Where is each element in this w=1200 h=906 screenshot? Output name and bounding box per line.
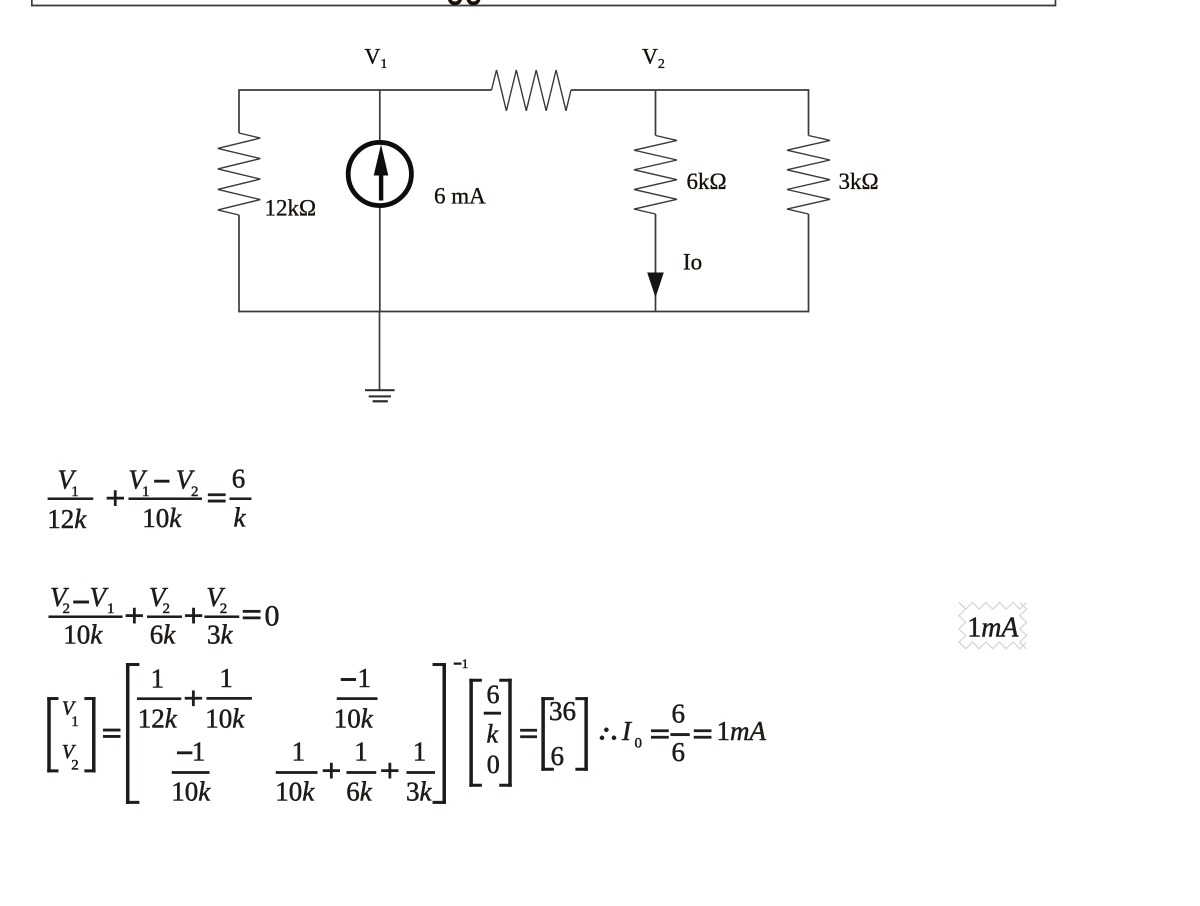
vector [V1;V2] right bracket	[92, 697, 95, 772]
svg-text:1: 1	[107, 601, 115, 617]
svg-text:2: 2	[191, 484, 199, 500]
svg-text:2: 2	[71, 757, 79, 773]
svg-text:6: 6	[551, 741, 565, 771]
svg-text:1: 1	[292, 736, 306, 766]
svg-text:1: 1	[219, 663, 233, 693]
matrix entry (1,2): -1/10k	[341, 678, 356, 680]
wire current source to bottom	[379, 207, 381, 312]
wire right branch lower	[808, 214, 810, 312]
wire left branch lower	[238, 215, 240, 312]
svg-text:6: 6	[232, 463, 246, 493]
answer annotation 1mA with squiggle border	[959, 602, 1027, 649]
svg-text:6k: 6k	[346, 777, 373, 807]
svg-text:2: 2	[163, 601, 171, 617]
wire top-right (V1-V2 net, right segment)	[571, 89, 809, 91]
vector [36;6] right bracket	[585, 697, 588, 770]
matrix exponent -1	[454, 663, 461, 665]
svg-text:6: 6	[672, 699, 686, 729]
svg-text:36: 36	[549, 696, 576, 726]
svg-text:0: 0	[487, 750, 500, 779]
svg-text:10k: 10k	[171, 777, 211, 807]
svg-text:10k: 10k	[63, 620, 103, 650]
eq3 equals 1	[103, 729, 120, 731]
svg-text:1mA: 1mA	[967, 612, 1019, 643]
vector [6/k;0] left bracket	[470, 679, 473, 787]
svg-text:12k: 12k	[47, 504, 87, 534]
matrix left bracket	[126, 663, 129, 803]
current arrow Io	[647, 273, 664, 298]
eq1 plus	[107, 497, 124, 499]
eq1 equals	[208, 494, 225, 496]
vector [36;6] left bracket	[542, 697, 545, 770]
svg-text:3k: 3k	[406, 777, 433, 807]
current source I1 arrow	[374, 145, 389, 201]
svg-text:6: 6	[672, 737, 686, 767]
svg-text:10k: 10k	[334, 703, 374, 733]
current source I1 (6 mA) circle	[348, 142, 411, 205]
wire left branch upper	[238, 89, 240, 133]
eq3 equals 2	[520, 729, 536, 731]
wire ground stem	[379, 312, 381, 390]
wire 6k lower branch	[655, 214, 657, 312]
ground	[365, 389, 395, 402]
matrix entry (2,1): -1/10k	[177, 752, 192, 754]
svg-text:I: I	[621, 716, 633, 746]
svg-text:Io: Io	[683, 250, 702, 275]
page frame bottom edge	[31, 0, 1056, 6]
svg-text:6: 6	[487, 680, 500, 709]
eq2 plus 1	[126, 615, 143, 617]
svg-text:0: 0	[635, 735, 643, 751]
svg-text:12k: 12k	[138, 703, 178, 733]
svg-text:1: 1	[413, 736, 427, 766]
wire top-left (V1 net, left segment)	[239, 89, 492, 91]
svg-text:6kΩ: 6kΩ	[687, 169, 727, 194]
svg-text:1: 1	[354, 736, 368, 766]
vector [V1;V2] left bracket	[48, 697, 51, 772]
eq2 plus 2	[185, 615, 202, 617]
svg-text:10k: 10k	[205, 703, 245, 733]
wire right branch upper	[808, 89, 810, 135]
svg-text:k: k	[234, 503, 247, 533]
svg-text:1mA: 1mA	[717, 716, 767, 746]
svg-text:0: 0	[265, 600, 280, 633]
svg-text:1: 1	[151, 664, 165, 694]
svg-text:3k: 3k	[207, 620, 234, 650]
eq2 equals zero	[243, 610, 260, 612]
svg-text:1: 1	[358, 663, 372, 693]
svg-text:6k: 6k	[150, 620, 177, 650]
resistor R3 6kOhm	[634, 136, 677, 215]
svg-text:1: 1	[142, 484, 150, 500]
eq3 equals 3	[651, 730, 668, 732]
eq3 equals 4	[694, 730, 711, 732]
resistor R4 3kOhm	[787, 136, 830, 215]
resistor R2 10k (between V1 and V2)	[492, 70, 572, 111]
vector [6/k;0] right bracket	[509, 679, 512, 787]
svg-text:10k: 10k	[275, 777, 315, 807]
header text remnant	[450, 0, 479, 3]
svg-text:V1: V1	[365, 44, 388, 73]
svg-text:V2: V2	[642, 44, 665, 73]
therefore symbol	[604, 728, 608, 732]
svg-text:2: 2	[220, 601, 228, 617]
svg-text:12kΩ: 12kΩ	[265, 196, 317, 221]
svg-text:3kΩ: 3kΩ	[839, 169, 879, 194]
svg-text:1: 1	[71, 484, 79, 500]
svg-text:2: 2	[63, 601, 71, 617]
svg-text:10k: 10k	[142, 503, 182, 533]
svg-text:1: 1	[462, 656, 469, 671]
matrix right bracket	[443, 663, 446, 803]
wire V2 stem	[655, 90, 657, 136]
wire V1 stem to current source	[379, 90, 381, 141]
svg-text:6 mA: 6 mA	[434, 184, 486, 209]
svg-text:1: 1	[192, 736, 206, 766]
svg-text:k: k	[487, 720, 499, 749]
resistor R1 12kOhm	[218, 133, 260, 215]
wire bottom (ground net)	[239, 311, 809, 313]
svg-text:1: 1	[71, 714, 79, 730]
